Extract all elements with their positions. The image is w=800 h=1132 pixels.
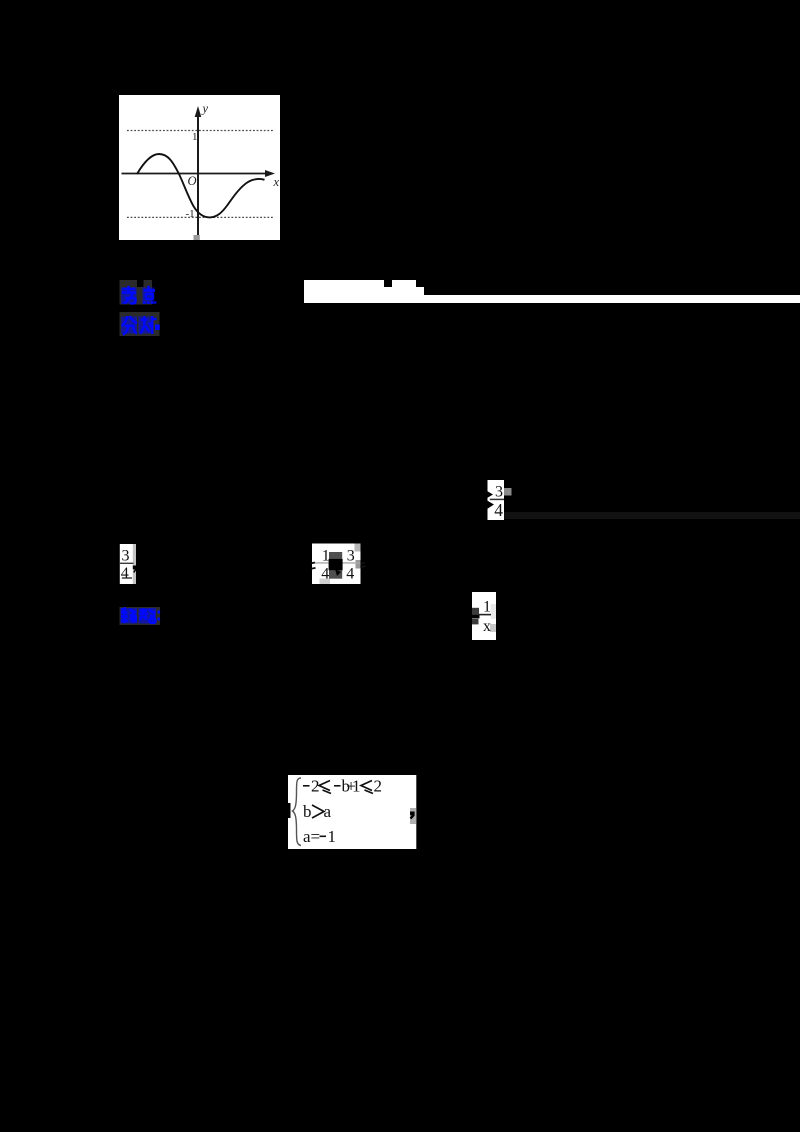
char1 kao	[122, 286, 136, 304]
line 1: -2 <= -b+1 <= 2	[303, 785, 310, 787]
svg-text:4: 4	[121, 565, 129, 582]
equation system image	[288, 774, 418, 850]
x-axis	[122, 173, 268, 175]
svg-text:=: =	[311, 827, 321, 846]
svg-text:x: x	[273, 175, 280, 189]
period	[155, 325, 160, 331]
fraction image: <= 3/4	[486, 478, 514, 524]
svg-text:1: 1	[328, 827, 337, 846]
comma at right	[410, 808, 416, 824]
comma	[133, 566, 137, 573]
curve	[137, 154, 265, 217]
svg-text:4: 4	[321, 565, 329, 582]
char2 xi	[140, 316, 156, 334]
blue label FENXI row	[119, 311, 165, 339]
svg-text:1: 1	[483, 599, 491, 616]
bottom dashed line y=-1	[127, 216, 273, 218]
char1 fen	[122, 316, 137, 335]
svg-text:3: 3	[122, 548, 130, 565]
white highlight bar group	[304, 280, 384, 303]
fraction image: 3/4 comma	[118, 542, 140, 588]
svg-text:a: a	[324, 802, 332, 821]
svg-text:x: x	[483, 618, 491, 635]
dark blob center	[329, 552, 342, 579]
svg-text:2: 2	[374, 777, 383, 796]
colon	[158, 611, 161, 614]
edge marks	[311, 562, 315, 565]
svg-text:4: 4	[346, 565, 354, 582]
svg-text:4: 4	[494, 500, 503, 520]
faint band right of fraction	[504, 512, 800, 519]
svg-text:y: y	[201, 102, 209, 116]
char2 dian	[144, 286, 156, 304]
left brace	[293, 778, 302, 846]
fraction image: =1/x	[470, 590, 498, 644]
svg-text:b: b	[303, 802, 312, 821]
svg-text:1: 1	[192, 131, 198, 143]
clipped wedge marks	[487, 491, 493, 498]
top dashed line y=1	[127, 130, 273, 132]
svg-text:-1: -1	[186, 208, 195, 220]
gray blob right	[504, 488, 512, 496]
blue label KAODIAN row	[119, 279, 161, 307]
fraction image: 1/4 [blob] 3/4	[311, 543, 367, 586]
svg-text:1: 1	[322, 548, 330, 565]
gray block at axis bottom	[194, 235, 200, 240]
svg-text:b+1: b+1	[342, 777, 361, 796]
svg-text:3: 3	[495, 484, 503, 501]
char2 da	[140, 608, 157, 623]
black notch left	[288, 803, 291, 818]
svg-text:O: O	[188, 174, 197, 188]
blue label JIEDA row	[119, 606, 165, 628]
char1 jie	[121, 608, 137, 623]
y-axis	[197, 109, 199, 237]
graph image: sine-like curve with axes	[119, 95, 280, 240]
svg-text:3: 3	[347, 548, 355, 565]
